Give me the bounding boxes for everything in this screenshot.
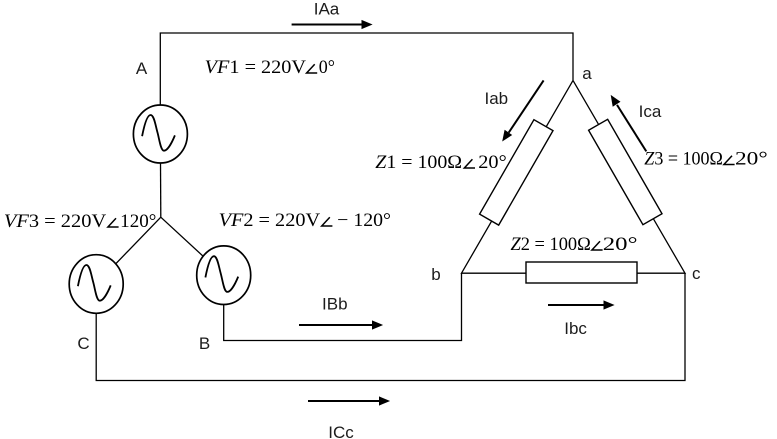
svg-text:− 120°: − 120°	[337, 210, 391, 231]
svg-text:Iab: Iab	[484, 89, 508, 108]
svg-text:IBb: IBb	[322, 295, 348, 314]
svg-text:Ibc: Ibc	[564, 319, 587, 338]
svg-text:120°: 120°	[120, 211, 156, 232]
svg-text:ICc: ICc	[328, 423, 354, 439]
svg-text:C: C	[77, 334, 89, 353]
svg-text:VF2 = 220V: VF2 = 220V	[219, 210, 321, 231]
svg-text:VF3 = 220V: VF3 = 220V	[4, 211, 107, 232]
svg-text:20°: 20°	[735, 149, 768, 170]
svg-text:B: B	[199, 334, 210, 353]
svg-text:b: b	[431, 265, 440, 284]
svg-text:IAa: IAa	[314, 0, 340, 19]
svg-text:Z3 = 100Ω: Z3 = 100Ω	[644, 149, 723, 170]
svg-text:0°: 0°	[319, 57, 335, 78]
svg-text:Z2 = 100Ω: Z2 = 100Ω	[511, 234, 591, 255]
svg-text:20°: 20°	[603, 234, 638, 255]
svg-text:VF1 = 220V: VF1 = 220V	[205, 57, 307, 78]
svg-text:a: a	[582, 64, 592, 83]
svg-text:c: c	[692, 264, 701, 283]
svg-text:A: A	[136, 59, 148, 78]
svg-text:20°: 20°	[478, 152, 506, 173]
svg-text:Ica: Ica	[639, 102, 662, 121]
svg-text:Z1 = 100Ω: Z1 = 100Ω	[375, 152, 462, 173]
